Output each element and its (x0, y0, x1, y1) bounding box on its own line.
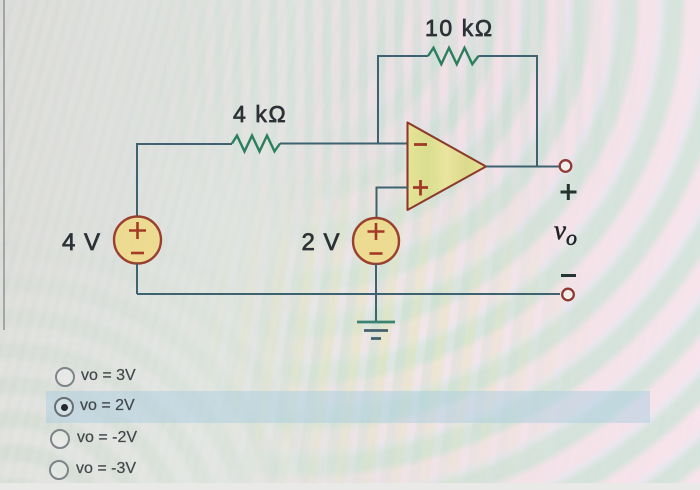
highlight band for selected option (46, 391, 650, 423)
voltage source V2 2V circle (353, 218, 399, 264)
V1 minus sign (131, 252, 144, 255)
V2 plus sign (368, 223, 385, 240)
wire: V1 bottom to bottom rail (136, 264, 138, 295)
op-amp U1 triangle (408, 123, 487, 211)
radio 3 (50, 429, 70, 449)
wire: vertical from + input down to V2 (376, 187, 378, 219)
option row 2 vo = 2V selected (0, 392, 700, 422)
V2 minus sign (370, 252, 383, 255)
U1 non-inverting input plus label (413, 180, 428, 196)
wire: non-inverting input horizontal (377, 187, 409, 189)
svg-text:10 kΩ: 10 kΩ (425, 15, 494, 41)
wire: feedback left vertical (377, 55, 379, 144)
output plus label (561, 184, 577, 200)
wire: V2 bottom down through rail to ground (375, 264, 377, 323)
option text 1 (81, 367, 136, 385)
option row 4 vo = -3V (0, 455, 700, 485)
bottom strip (0, 483, 700, 490)
svg-text:4 kΩ: 4 kΩ (233, 101, 287, 127)
wire: input line from R2 to op-amp inverting input (280, 143, 408, 145)
resistor R1 10k zigzag (428, 48, 479, 64)
option text 2 (80, 397, 135, 415)
svg-text:2 V: 2 V (302, 229, 341, 256)
wire: feedback right vertical down to output node (536, 55, 538, 166)
svg-text:vo: vo (554, 215, 577, 250)
wire: left vertical from input corner down to V1 (136, 143, 138, 217)
wire: input line from V1 top corner to R2 (137, 143, 232, 145)
svg-text:4 V: 4 V (62, 229, 101, 256)
wire: feedback top-left horizontal from node A to R1 (378, 55, 428, 57)
option row 3 vo = -2V (0, 424, 700, 454)
V1 plus sign (129, 222, 146, 239)
option text 4 (76, 460, 136, 478)
radio 1 (55, 367, 75, 387)
option text 3 (77, 429, 137, 447)
radio 4 (49, 460, 69, 480)
ground bar 1 (357, 321, 395, 324)
output terminal top (560, 160, 572, 172)
wire: feedback top-right horizontal from R1 to right corner (479, 55, 538, 57)
ground bar 2 (364, 329, 388, 332)
U1 inverting input minus label (414, 143, 427, 146)
left screen edge (3, 0, 5, 330)
resistor R2 4k zigzag (232, 136, 280, 152)
output terminal bottom (562, 289, 574, 301)
ground bar 3 (371, 337, 381, 340)
radio 2 selected (54, 397, 74, 417)
voltage source V1 4V circle (114, 217, 161, 264)
wire: bottom rail (137, 293, 560, 295)
output minus label (561, 274, 576, 277)
wire: op-amp output to terminal (486, 166, 559, 168)
option row 1 vo = 3V (0, 362, 700, 392)
